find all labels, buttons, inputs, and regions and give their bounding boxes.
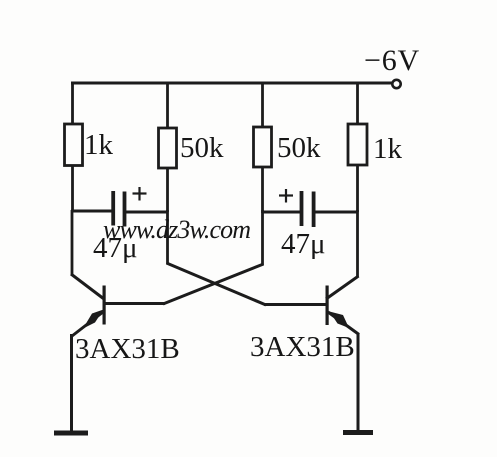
wire R2 to node B [166,168,169,212]
wire Q2 collector diagonal [326,276,359,299]
wire node D down to Q2 collector bend [356,210,359,277]
wire rail to R1 [71,82,74,126]
svg-text:−6V: −6V [364,44,420,77]
wire R3 to node C [261,166,264,213]
svg-text:50k: 50k [180,132,224,164]
capacitor C2 47u left plate [300,191,304,226]
capacitor C1 47u left plate [111,191,115,226]
wire crossover node C to Q1 base (diagonal) [163,264,264,304]
wire crossover node B to Q2 base (diagonal) [167,263,267,305]
wire rail to R4 [356,82,359,126]
wire node C to C2 left plate [262,211,302,214]
wire Q2 base lead horizontal [264,303,327,306]
wire R1 to node A [71,165,74,212]
capacitor C2 47u right plate [312,192,316,228]
svg-text:50k: 50k [277,132,321,164]
transistor Q2 emitter wire [328,312,359,335]
transistor Q2 base bar [326,286,329,326]
wire Q1 collector diagonal [71,274,104,299]
wire node B down to crossover bend [166,210,169,264]
svg-text:47μ: 47μ [281,228,326,260]
transistor Q1 base bar [103,286,106,325]
wire node C down to crossover bend [261,210,264,265]
terminal -6V (open circle) [392,80,400,88]
wire C1 right plate to node B [126,211,169,214]
wire R4 to node D [356,165,359,212]
svg-text:1k: 1k [84,129,114,161]
wire Q2 emitter to ground [357,333,360,432]
transistor Q1 emitter wire [72,312,103,336]
resistor R4 1k (right) [348,124,367,165]
svg-text:3AX31B: 3AX31B [75,333,180,365]
wire Q1 base lead horizontal [103,302,165,305]
svg-text:1k: 1k [373,133,403,165]
wire node A down to Q1 collector bend [71,210,74,275]
svg-text:www.dz3w.com: www.dz3w.com [103,215,250,244]
polarity + of C2 [279,189,293,203]
wire C2 right plate to node D [315,211,359,214]
resistor R2 50k (left) [159,128,177,168]
svg-text:3AX31B: 3AX31B [250,331,355,363]
polarity + of C1 [133,187,147,201]
resistor R1 1k (left) [65,124,83,166]
wire Q1 emitter to ground [70,334,73,432]
capacitor C1 47u right plate [123,192,127,227]
wire rail to R3 [261,82,264,129]
transistor Q2 emitter arrow [330,312,350,329]
ground (right) [343,430,373,435]
transistor Q1 emitter arrow [83,310,104,329]
ground (left) [54,431,88,436]
resistor R3 50k (right) [254,127,272,167]
wire rail to R2 [166,82,169,130]
wire node A to C1 left plate [71,210,113,213]
wire top supply rail [71,82,392,85]
